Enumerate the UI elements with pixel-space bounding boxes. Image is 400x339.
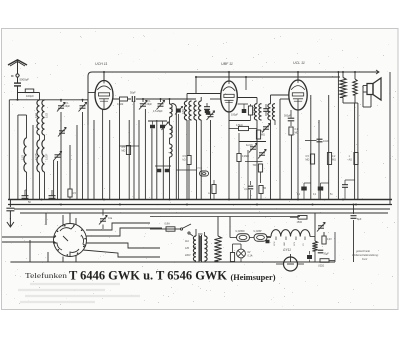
svg-text:U22Ω: U22Ω — [318, 265, 324, 268]
svg-text:MΩ: MΩ — [122, 150, 126, 153]
svg-text:0,50: 0,50 — [182, 109, 185, 114]
svg-text:0,4V: 0,4V — [327, 239, 332, 241]
svg-text:8μF: 8μF — [357, 218, 362, 221]
svg-text:C/a: C/a — [108, 216, 113, 220]
svg-text:U,N25P: U,N25P — [254, 231, 263, 233]
svg-text:50μF: 50μF — [324, 254, 330, 256]
svg-text:29pF: 29pF — [147, 103, 153, 106]
svg-text:T 6446 GWK u. T 6546 GWK: T 6446 GWK u. T 6546 GWK — [69, 268, 228, 283]
svg-text:0,8A: 0,8A — [165, 222, 171, 226]
svg-text:220V: 220V — [185, 254, 191, 257]
svg-text:0,03: 0,03 — [22, 155, 25, 160]
svg-text:MΩ: MΩ — [306, 159, 310, 162]
svg-text:0,022: 0,022 — [117, 103, 124, 106]
svg-text:100pF: 100pF — [231, 114, 239, 117]
svg-text:10nF: 10nF — [323, 140, 329, 143]
svg-text:C/4+C: C/4+C — [196, 168, 203, 170]
svg-text:0,01B: 0,01B — [35, 153, 38, 160]
svg-text:gezeichnete: gezeichnete — [356, 249, 371, 253]
svg-text:0,03: 0,03 — [46, 113, 49, 118]
svg-text:UBF 11: UBF 11 — [221, 62, 233, 66]
svg-text:0,000: 0,000 — [171, 126, 174, 133]
svg-text:0,000: 0,000 — [253, 109, 255, 115]
svg-text:U,N2500: U,N2500 — [236, 231, 246, 233]
svg-text:125: 125 — [185, 247, 190, 250]
svg-text:0,03F: 0,03F — [46, 153, 49, 160]
svg-text:0,1A: 0,1A — [248, 255, 253, 258]
svg-text:kΩ: kΩ — [183, 159, 186, 162]
svg-text:MΩ: MΩ — [332, 159, 336, 162]
svg-text:0,02: 0,02 — [35, 113, 38, 118]
svg-text:100pF: 100pF — [26, 94, 34, 98]
svg-text:AΩ: AΩ — [349, 159, 353, 162]
svg-text:4,5-29pF: 4,5-29pF — [153, 110, 163, 113]
svg-text:9+F29: 9+F29 — [246, 145, 253, 147]
svg-text:GY11: GY11 — [283, 248, 291, 252]
svg-text:UCH 11: UCH 11 — [95, 62, 108, 66]
svg-text:110: 110 — [185, 240, 189, 243]
svg-text:1500: 1500 — [297, 221, 303, 224]
svg-text:UCL 11: UCL 11 — [293, 61, 305, 65]
svg-text:(Heimsuper): (Heimsuper) — [231, 272, 276, 282]
svg-text:29pF: 29pF — [65, 105, 71, 108]
svg-text:MΩ: MΩ — [261, 134, 265, 137]
svg-text:Telefunken: Telefunken — [25, 272, 68, 280]
svg-text:Wellenschalterstellung:: Wellenschalterstellung: — [352, 253, 379, 257]
svg-text:50pF: 50pF — [130, 92, 136, 95]
svg-text:5000pF: 5000pF — [20, 78, 30, 82]
svg-text:4,5kΩ: 4,5kΩ — [236, 124, 243, 127]
svg-text:500pF: 500pF — [284, 115, 292, 118]
svg-text:Kurz: Kurz — [362, 257, 368, 261]
svg-text:UCH: UCH — [274, 241, 276, 246]
svg-text:0,00: 0,00 — [171, 107, 174, 112]
